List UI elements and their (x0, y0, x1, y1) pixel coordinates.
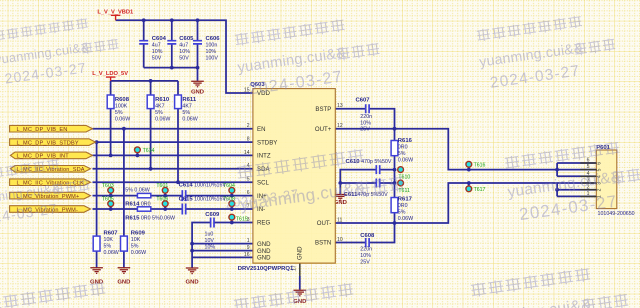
svg-text:STDBY: STDBY (257, 139, 277, 146)
svg-text:5%: 5% (115, 110, 123, 116)
svg-text:R611: R611 (182, 97, 196, 103)
svg-text:0.06W: 0.06W (398, 158, 413, 164)
svg-text:C606: C606 (206, 36, 221, 42)
svg-text:0.06W: 0.06W (182, 116, 197, 122)
svg-text:220n: 220n (360, 246, 372, 252)
svg-text:GND: GND (257, 241, 271, 248)
svg-text:C614 100n10%16V: C614 100n10%16V (179, 183, 227, 189)
svg-text:C604: C604 (152, 36, 167, 42)
svg-text:INTZ: INTZ (257, 153, 271, 160)
svg-text:5%: 5% (155, 110, 163, 116)
svg-text:100K: 100K (115, 103, 128, 109)
svg-text:4K7: 4K7 (155, 103, 164, 109)
svg-text:10%: 10% (205, 244, 216, 250)
svg-text:4u7: 4u7 (179, 42, 188, 48)
svg-text:1: 1 (247, 238, 250, 244)
svg-text:5% 0.06W: 5% 0.06W (125, 187, 149, 193)
svg-text:25V: 25V (360, 127, 370, 133)
svg-text:EN: EN (257, 126, 265, 133)
svg-text:R608: R608 (115, 97, 130, 103)
svg-text:C609: C609 (205, 212, 220, 218)
svg-text:T603: T603 (102, 183, 114, 189)
svg-text:10%: 10% (360, 253, 371, 259)
svg-text:10%: 10% (206, 49, 217, 55)
svg-text:DRV2510QPWPRQ1: DRV2510QPWPRQ1 (238, 266, 294, 272)
svg-text:R607: R607 (104, 230, 119, 236)
svg-text:2: 2 (247, 123, 250, 129)
svg-text:10K: 10K (104, 237, 114, 243)
svg-text:L_MC_DP_VIB_STDBY: L_MC_DP_VIB_STDBY (17, 140, 79, 146)
svg-text:GND: GND (117, 279, 130, 285)
svg-text:100V: 100V (206, 55, 219, 61)
svg-text:50V: 50V (179, 55, 189, 61)
svg-text:14: 14 (244, 150, 250, 156)
svg-text:L_V_V_VBD1: L_V_V_VBD1 (97, 10, 133, 16)
svg-text:5%: 5% (398, 209, 406, 215)
svg-text:5: 5 (587, 164, 590, 170)
svg-text:10K: 10K (131, 237, 141, 243)
svg-text:L_MC_DP_VIB_INT: L_MC_DP_VIB_INT (17, 154, 70, 160)
svg-text:R617: R617 (398, 196, 413, 202)
svg-text:C615 100n10%16V: C615 100n10%16V (179, 197, 227, 203)
svg-text:11: 11 (337, 217, 342, 223)
svg-text:6: 6 (597, 162, 603, 165)
svg-text:0R0: 0R0 (398, 145, 408, 151)
svg-text:C605: C605 (179, 36, 194, 42)
svg-text:OUT+: OUT+ (315, 126, 332, 133)
svg-text:13: 13 (337, 103, 343, 109)
svg-text:GND: GND (297, 246, 304, 260)
svg-text:REG: REG (257, 220, 270, 227)
svg-text:GND: GND (186, 280, 199, 286)
svg-text:BSTP: BSTP (315, 106, 331, 113)
svg-text:T617: T617 (474, 187, 486, 193)
svg-text:5%: 5% (104, 243, 112, 249)
svg-text:SCL: SCL (257, 179, 269, 186)
svg-text:L_MC_DP_VIB_EN: L_MC_DP_VIB_EN (17, 127, 68, 133)
svg-text:R614 0R0: R614 0R0 (125, 201, 150, 207)
svg-text:10: 10 (337, 237, 343, 243)
svg-text:4u7: 4u7 (152, 42, 161, 48)
svg-text:C608: C608 (360, 233, 375, 239)
svg-text:BSTN: BSTN (315, 240, 331, 247)
svg-text:8: 8 (247, 137, 250, 143)
svg-text:10V: 10V (205, 238, 215, 244)
svg-text:5%: 5% (398, 151, 406, 157)
svg-text:10%: 10% (360, 120, 371, 126)
svg-text:0.06W: 0.06W (104, 250, 119, 256)
svg-text:5%: 5% (182, 110, 190, 116)
svg-text:L_V_LDO_5V: L_V_LDO_5V (92, 71, 128, 77)
svg-text:4K7: 4K7 (182, 103, 191, 109)
svg-text:R609: R609 (131, 230, 146, 236)
svg-text:16: 16 (244, 252, 250, 258)
svg-text:10%: 10% (179, 49, 190, 55)
svg-text:T614: T614 (143, 148, 155, 154)
svg-text:50V: 50V (152, 55, 162, 61)
svg-text:T601: T601 (156, 183, 168, 189)
svg-text:6: 6 (587, 158, 590, 164)
svg-text:0.06W: 0.06W (155, 116, 170, 122)
svg-text:220n: 220n (360, 114, 372, 120)
svg-text:100n: 100n (206, 42, 218, 48)
svg-text:12: 12 (337, 123, 343, 129)
svg-text:T606: T606 (156, 196, 168, 202)
svg-text:10%: 10% (152, 49, 163, 55)
svg-text:25V: 25V (360, 259, 370, 265)
svg-text:0R0: 0R0 (398, 203, 408, 209)
svg-text:5%: 5% (131, 243, 139, 249)
svg-text:1u0: 1u0 (205, 232, 214, 238)
svg-text:2: 2 (597, 188, 603, 191)
svg-text:C607: C607 (356, 98, 371, 104)
svg-text:R610: R610 (155, 97, 170, 103)
svg-text:0.06W: 0.06W (131, 250, 146, 256)
svg-text:0.06W: 0.06W (115, 116, 130, 122)
svg-text:T605: T605 (102, 196, 114, 202)
svg-text:R615 0R0 5%0.06W: R615 0R0 5%0.06W (125, 216, 175, 222)
svg-text:0.06W: 0.06W (398, 216, 413, 222)
svg-text:T616: T616 (474, 162, 486, 168)
svg-text:OUT-: OUT- (317, 220, 332, 227)
svg-text:T615: T615 (236, 216, 248, 222)
svg-text:GND: GND (191, 90, 204, 96)
svg-text:9: 9 (247, 245, 250, 251)
svg-text:5: 5 (247, 177, 250, 183)
svg-text:R616: R616 (398, 138, 413, 144)
svg-text:GND: GND (257, 255, 271, 262)
